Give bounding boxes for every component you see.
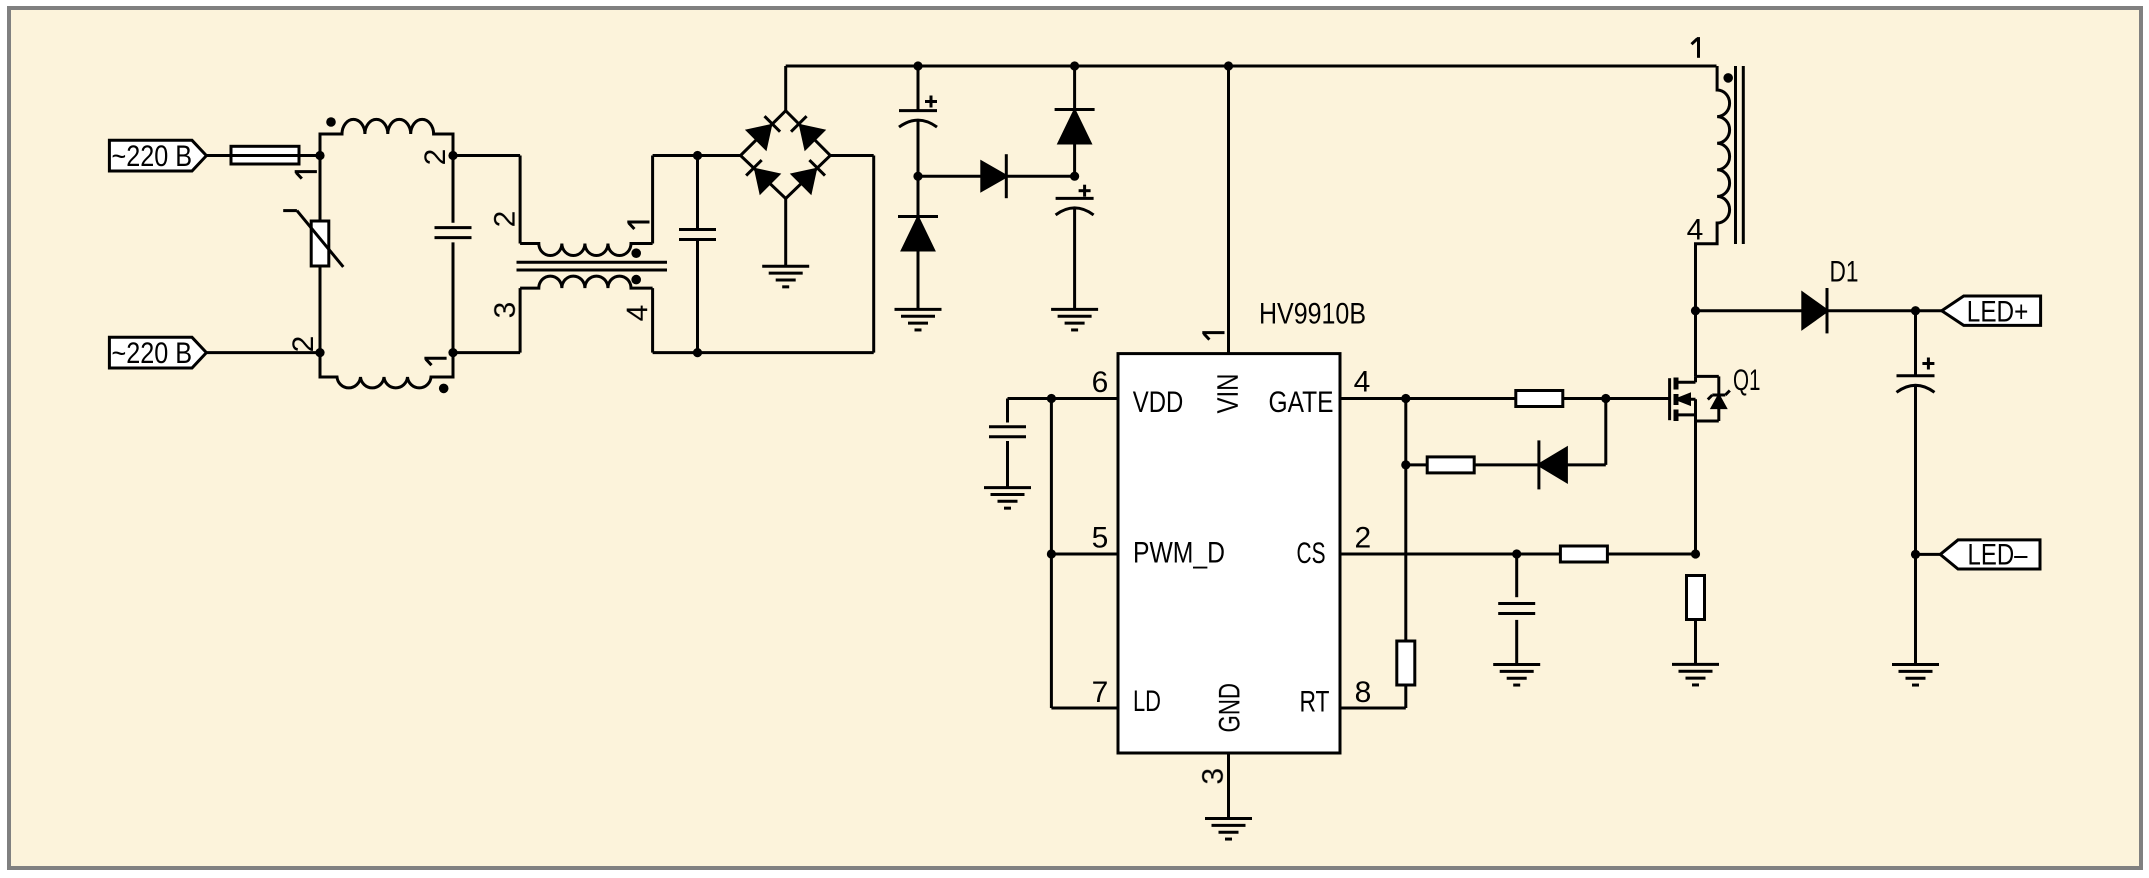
ground at LED- <box>1892 663 1939 666</box>
junction bus at VD4 <box>1070 61 1079 70</box>
wire VDD node to C5 <box>1008 397 1052 400</box>
svg-text:D1: D1 <box>1830 256 1859 289</box>
pin label 3 of T1 <box>489 302 522 319</box>
pin label 1 of choke bottom-right <box>424 358 446 365</box>
pin label 6 <box>1092 366 1109 399</box>
wire top flag to node 1 <box>206 154 320 157</box>
ground at IC GND <box>1205 817 1252 820</box>
ground at C4 <box>1051 308 1098 311</box>
pin label 8 <box>1355 676 1372 709</box>
junction VDD node <box>1047 394 1056 403</box>
diode VD4 (to bus) <box>1055 66 1095 176</box>
svg-text:4: 4 <box>621 305 654 322</box>
svg-text:3: 3 <box>489 302 522 319</box>
ground at R5 <box>1672 663 1719 666</box>
phase dot top winding <box>326 117 336 127</box>
electrolytic capacitor C4 <box>1056 185 1094 310</box>
svg-text:4: 4 <box>1687 214 1704 247</box>
svg-text:LED+: LED+ <box>1967 296 2029 329</box>
resistor R4 (CS) <box>1560 546 1607 562</box>
diode VD3 (horizontal) <box>918 154 1075 198</box>
pin label 4 of T2 <box>1687 214 1704 247</box>
svg-text:RT: RT <box>1300 686 1330 719</box>
wire R3 to RT pin <box>1404 685 1407 708</box>
varistor RU1 <box>283 156 343 353</box>
svg-text:LD: LD <box>1133 685 1161 718</box>
transformer T1 top winding <box>520 244 653 256</box>
junction bus at C3 <box>913 61 922 70</box>
svg-text:6: 6 <box>1092 366 1109 399</box>
wire PWM_D pin 5 <box>1051 553 1118 556</box>
wire GND pin 3 <box>1227 753 1230 819</box>
wire VD5 to node B riser <box>1566 463 1605 466</box>
pin label 2 <box>1355 522 1372 555</box>
resistor R5 (current sense) <box>1687 576 1705 620</box>
wire VIN pin 1 <box>1227 66 1230 354</box>
pin name RT <box>1300 686 1330 719</box>
junction VD4 anode node <box>1070 172 1079 181</box>
pin name GATE <box>1269 386 1334 419</box>
wire bottom rail node1-right to T1 pin 3 <box>453 351 520 354</box>
wire RT pin 8 <box>1340 707 1406 710</box>
pin label 1 of choke <box>295 172 317 179</box>
wire node A down <box>1404 399 1407 644</box>
pin label 2 of choke <box>419 149 452 166</box>
resistor R2 (speedup) <box>1427 457 1474 473</box>
wire PWM_D-LD tie <box>1050 554 1053 708</box>
Q1 body zener diode <box>1696 376 1730 421</box>
svg-text:CS: CS <box>1297 537 1326 570</box>
label D1 <box>1830 256 1859 289</box>
electrolytic capacitor C7 (output) <box>1897 311 1935 555</box>
wire T1 pin1 to bridge left corner <box>653 154 741 157</box>
junction gate node B <box>1601 394 1610 403</box>
svg-text:7: 7 <box>1092 676 1109 709</box>
pin label 1 VIN <box>1202 333 1224 340</box>
phase dot T1 bottom winding <box>631 275 641 285</box>
wire speedup node to R2 <box>1406 463 1428 466</box>
junction at C2 top <box>693 151 702 160</box>
wire VDD-PWM_D tie <box>1050 399 1053 555</box>
junction drain/D1 node <box>1691 306 1700 315</box>
pin name PWM_D <box>1133 537 1225 570</box>
svg-text:VDD: VDD <box>1133 386 1184 419</box>
phase dot bottom winding <box>439 384 449 394</box>
wire bottom flag to node 2-left <box>206 351 320 354</box>
junction node 2 (right of top winding) <box>448 151 457 160</box>
svg-text:LED–: LED– <box>1968 539 2028 572</box>
label Q1 <box>1733 364 1761 397</box>
svg-text:Q1: Q1 <box>1733 364 1761 397</box>
svg-text:~220 B: ~220 B <box>112 337 193 370</box>
transformer T1 pin 2 lead <box>519 156 522 244</box>
junction CS filter node <box>1512 549 1521 558</box>
bridge diode bottom-right <box>793 159 826 192</box>
transformer T1 pin 1 lead <box>651 156 654 244</box>
bridge diode bottom-left <box>745 159 778 192</box>
resistor R1 (gate) <box>1516 391 1563 407</box>
common-mode choke L1 top winding <box>320 119 453 155</box>
wire VDD pin 6 <box>1051 397 1118 400</box>
wire node2 to T1 pin 2 <box>453 154 520 157</box>
capacitor C5 (VDD decoupling) <box>989 399 1026 488</box>
ground at VD2 <box>895 308 942 311</box>
junction node 1-right (bottom) <box>448 348 457 357</box>
wire to D1 <box>1696 309 1803 312</box>
bridge rectifier VD1 diamond <box>741 111 831 199</box>
X-capacitor C2 <box>679 156 716 353</box>
wire D1 to LED+ node <box>1827 309 1942 312</box>
wire CS pin 2 <box>1340 553 1560 556</box>
phase dot T2 <box>1723 73 1733 83</box>
junction at C2 bottom <box>693 348 702 357</box>
transformer T1 pin 3 lead <box>519 288 522 353</box>
svg-text:2: 2 <box>489 211 522 228</box>
pin label 1 of T2 <box>1697 37 1700 58</box>
pin name VDD <box>1133 386 1184 419</box>
svg-text:5: 5 <box>1092 522 1109 555</box>
junction speedup node <box>1401 460 1410 469</box>
wire LD pin 7 <box>1051 707 1118 710</box>
diode VD2 (to ground) <box>898 176 938 309</box>
transistor Q1 (N-MOSFET) <box>1670 376 1696 421</box>
pin name CS <box>1297 537 1326 570</box>
transformer T1 bottom winding <box>520 276 653 288</box>
pin name GND <box>1213 683 1246 733</box>
wire LED- node to flag <box>1916 553 1941 556</box>
pin label 2 of choke bottom-left <box>287 336 320 353</box>
svg-text:GATE: GATE <box>1269 386 1334 419</box>
resistor R3 (RT) <box>1397 641 1415 685</box>
pin label 2 of T1 <box>489 211 522 228</box>
svg-text:8: 8 <box>1355 676 1372 709</box>
capacitor C6 (CS filter) <box>1498 554 1535 665</box>
wire bridge right corner riser <box>872 156 875 353</box>
svg-text:2: 2 <box>1355 522 1372 555</box>
junction LED- node <box>1911 550 1920 559</box>
svg-text:4: 4 <box>1354 365 1371 398</box>
junction node 2-left (bottom of varistor) <box>315 348 324 357</box>
wire bottom rail T1 pin4 to bridge right riser <box>653 351 874 354</box>
junction gate node A <box>1401 394 1410 403</box>
svg-text:VIN: VIN <box>1212 374 1245 414</box>
bridge diode top-left <box>748 115 781 148</box>
junction source node C <box>1691 549 1700 558</box>
junction PWM_D node <box>1047 549 1056 558</box>
junction bus at VIN <box>1224 61 1233 70</box>
bridge diode top-right <box>790 115 823 148</box>
wire bridge - to ground <box>784 199 787 267</box>
svg-text:~220 B: ~220 B <box>112 140 193 173</box>
svg-text:PWM_D: PWM_D <box>1133 537 1225 570</box>
wire bridge + riser to bus <box>784 66 787 111</box>
pin label 1 of T1 <box>627 222 649 229</box>
common-mode choke L1 bottom winding <box>320 353 453 388</box>
fuse FU1 <box>231 146 299 164</box>
connector X2 ~220 B (line input, bottom) <box>109 337 206 370</box>
transformer T2 core <box>1734 66 1737 244</box>
pin label 5 <box>1092 522 1109 555</box>
svg-text:HV9910B: HV9910B <box>1259 298 1366 331</box>
wire Q1 drain <box>1694 311 1697 377</box>
svg-text:GND: GND <box>1213 683 1246 733</box>
wire R4 to source node <box>1607 553 1695 556</box>
phase dot T1 top winding <box>631 248 641 258</box>
pin label 3 <box>1197 768 1230 785</box>
svg-text:2: 2 <box>419 149 452 166</box>
pin label 4 of T1 <box>621 305 654 322</box>
ground at C6 <box>1493 663 1540 666</box>
junction node 1 (top of varistor) <box>315 151 324 160</box>
IC U1 HV9910B body <box>1118 354 1340 753</box>
wire GATE pin 4 <box>1340 397 1516 400</box>
transformer T2 winding <box>1696 66 1730 311</box>
pin label 7 <box>1092 676 1109 709</box>
wire R5 to ground <box>1694 620 1697 665</box>
wire LED- node to ground <box>1914 554 1917 664</box>
wire R1 to gate node B <box>1563 397 1670 400</box>
junction LED+ node <box>1911 306 1920 315</box>
pin label 4 <box>1354 365 1371 398</box>
ground at C5 <box>984 486 1031 489</box>
connector X1 ~220 B (line input, top) <box>109 140 206 173</box>
wire DC bus +310V <box>786 65 1717 68</box>
pin name LD <box>1133 685 1161 718</box>
electrolytic capacitor C3 <box>899 66 937 176</box>
svg-text:2: 2 <box>287 336 320 353</box>
IC label HV9910B <box>1259 298 1366 331</box>
junction C3 bottom node <box>913 172 922 181</box>
diode VD5 (speedup, pointing left) <box>1539 448 1567 481</box>
X-capacitor C1 <box>435 156 472 353</box>
ground at bridge <box>762 265 809 268</box>
transformer T1 core <box>517 261 668 264</box>
wire R2 to VD5 <box>1474 463 1539 466</box>
diode D1 <box>1803 293 1827 328</box>
svg-text:3: 3 <box>1197 768 1230 785</box>
transformer T1 pin 4 lead <box>651 288 654 353</box>
connector LED+ <box>1942 296 2041 329</box>
connector LED- <box>1940 539 2040 572</box>
wire Q1 source to node C <box>1694 421 1697 554</box>
pin name VIN <box>1212 374 1245 414</box>
